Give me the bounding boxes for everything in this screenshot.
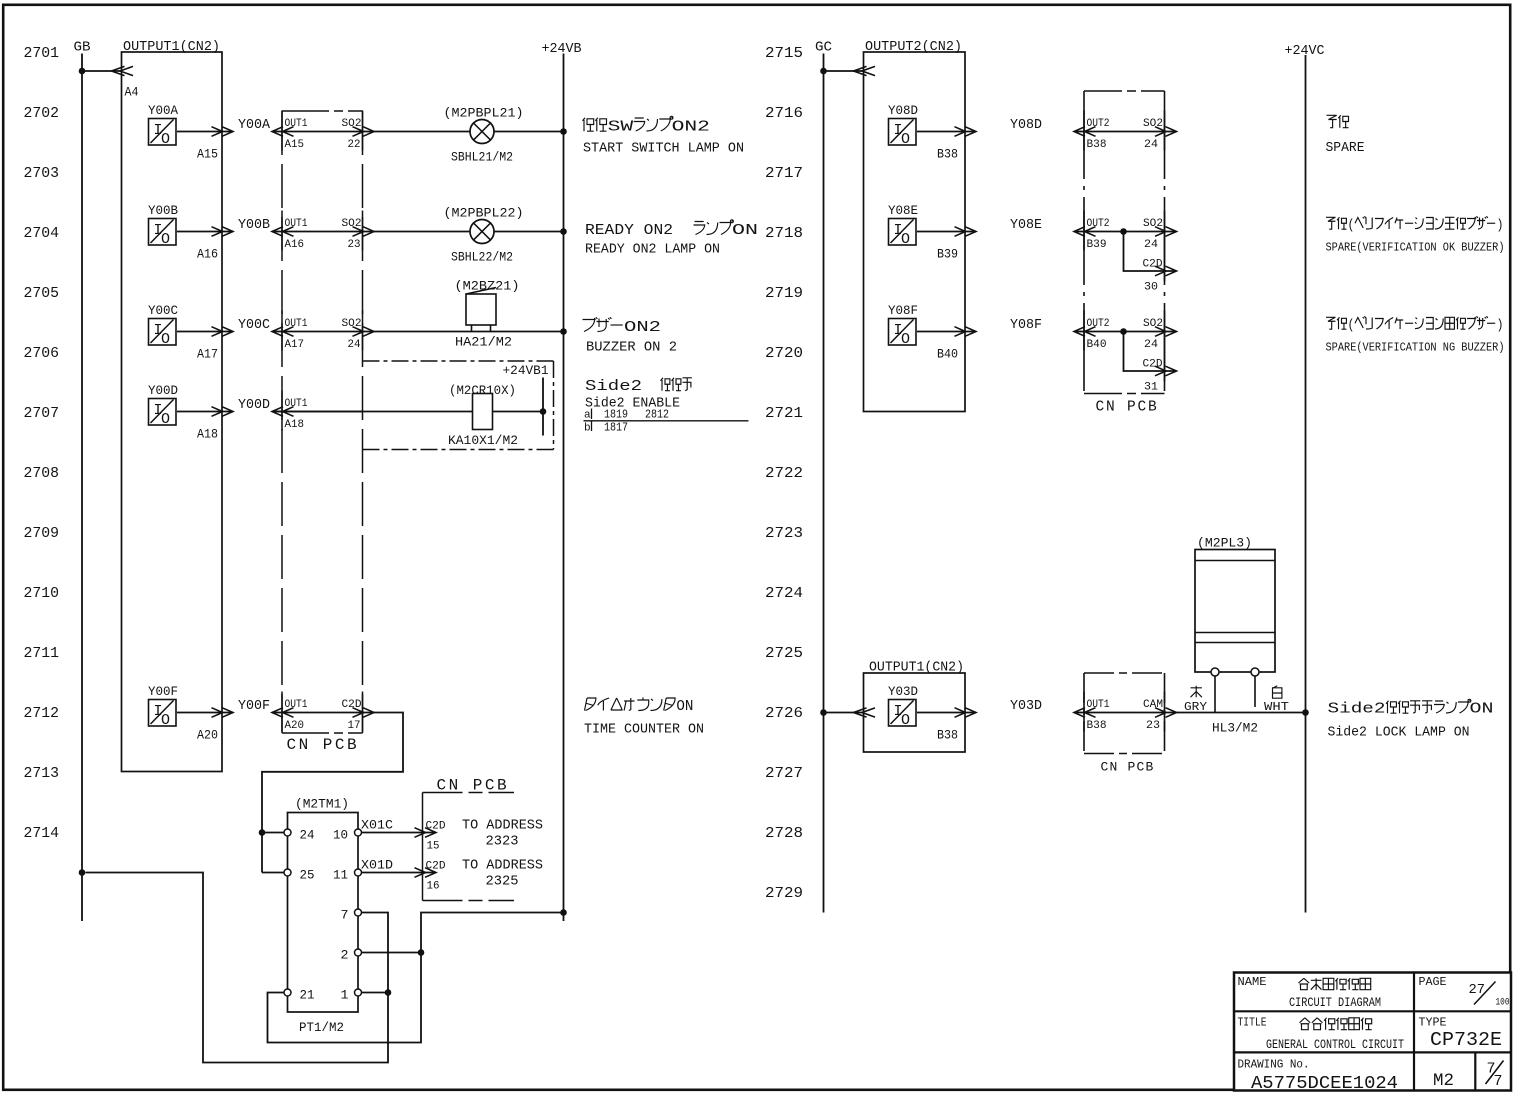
junction +24VB bottom end [560, 909, 567, 916]
connector OUTPUT2(CN2) outline [864, 52, 966, 412]
svg-text:SO2: SO2 [342, 318, 362, 330]
svg-text:HA21/M2: HA21/M2 [455, 336, 512, 350]
wire Y00D module to connector edge [177, 407, 233, 417]
svg-text:11: 11 [333, 868, 348, 883]
caption side2 lock lamp on [1328, 699, 1494, 740]
svg-text:SO2: SO2 [342, 218, 362, 230]
caption rung 2702 start switch lamp on [583, 116, 745, 156]
svg-text:OUT2: OUT2 [1087, 218, 1110, 230]
wire timer pin 7 to GB rail [86, 873, 389, 1063]
svg-text:O: O [161, 331, 170, 348]
svg-text:7: 7 [341, 908, 349, 923]
branch C2D 31 from Y08F [1120, 328, 1176, 393]
svg-text:A18: A18 [285, 419, 305, 431]
svg-text:Y00B: Y00B [148, 203, 178, 218]
svg-text:O: O [901, 712, 910, 729]
svg-text:O: O [161, 231, 170, 248]
svg-text:Y03D: Y03D [888, 684, 918, 699]
pin labels OUT1/A20 [285, 699, 308, 732]
svg-text:READY ON2 LAMP ON: READY ON2 LAMP ON [585, 243, 720, 258]
junction rung 2706 on +24VB [560, 328, 567, 335]
title block page cell [1419, 975, 1510, 1008]
CN PCB input arrow Y00A [272, 127, 294, 137]
junction on GB at rung 2701 [79, 68, 86, 75]
wire through CN PCB right row Y08F [1074, 327, 1177, 337]
svg-text:OUT1: OUT1 [1087, 699, 1110, 711]
CN PCB label (left box) [287, 736, 360, 754]
svg-text:7: 7 [1494, 1073, 1503, 1090]
svg-text:O: O [161, 411, 170, 428]
pin labels SO2/22 [342, 118, 362, 151]
svg-text:24: 24 [1144, 339, 1158, 351]
svg-text:2: 2 [341, 948, 349, 963]
power rail +24VB [542, 42, 582, 921]
svg-text:A17: A17 [197, 347, 218, 362]
svg-text:SO2: SO2 [1143, 218, 1163, 230]
junction relay to +24VB1 [540, 408, 547, 415]
wire GC to OUTPUT2 connector entry [824, 66, 876, 75]
svg-text:(M2BZ21): (M2BZ21) [455, 279, 520, 294]
CN PCB input arrow Y00F [272, 708, 294, 718]
svg-text:31: 31 [1144, 382, 1158, 394]
pin label B38 [937, 147, 958, 162]
wire through CN PCB row Y00D [272, 411, 363, 413]
timer pins right [355, 829, 362, 996]
svg-text:Y00D: Y00D [148, 383, 178, 398]
title block outline [1234, 973, 1511, 1091]
wire Y08E module to connector edge [917, 227, 976, 237]
CN PCB right input arrow Y08F [1074, 327, 1096, 337]
svg-text:21: 21 [300, 988, 315, 1003]
CN PCB input arrow Y00D [272, 407, 294, 417]
pin labels SO2/23 [342, 218, 362, 251]
svg-text:2709: 2709 [24, 525, 60, 542]
svg-text:A17: A17 [285, 339, 305, 351]
svg-text:2716: 2716 [765, 105, 803, 122]
svg-text:CP732E: CP732E [1430, 1029, 1502, 1051]
svg-text:X01C: X01C [361, 818, 393, 833]
caption rung 2704 ready on2 lamp on [585, 220, 758, 258]
net label Y00C [238, 318, 270, 333]
svg-text:Y00D: Y00D [238, 398, 270, 413]
svg-text:PAGE: PAGE [1419, 975, 1447, 989]
wire through CN PCB row Y00A [272, 127, 374, 137]
svg-text:SO2: SO2 [342, 118, 362, 130]
pin labels OUT1/A16 [285, 218, 308, 251]
svg-text:B38: B38 [937, 147, 958, 162]
svg-text:TITLE: TITLE [1238, 1016, 1267, 1030]
pin labels OUT2/B40 SO2/24 [1087, 318, 1164, 351]
svg-text:SW: SW [608, 119, 634, 136]
I/O output module Y08D [888, 103, 918, 148]
svg-text:TIME COUNTER ON: TIME COUNTER ON [584, 723, 704, 738]
svg-text:SPARE(VERIFICATION OK BUZZER): SPARE(VERIFICATION OK BUZZER) [1326, 242, 1505, 255]
svg-text:TO ADDRESS: TO ADDRESS [462, 859, 543, 874]
svg-text:B40: B40 [937, 347, 958, 362]
svg-text:1819: 1819 [604, 408, 628, 422]
svg-text:A20: A20 [285, 720, 305, 732]
svg-text:CN PCB: CN PCB [1101, 760, 1155, 775]
svg-text:Y08F: Y08F [888, 303, 918, 318]
net label Y00A [238, 118, 271, 133]
net label Y00F [238, 699, 270, 714]
svg-text:2325: 2325 [486, 875, 519, 890]
svg-text:24: 24 [300, 828, 315, 843]
svg-text:2719: 2719 [765, 285, 803, 302]
wire through CN PCB box4 [1074, 708, 1177, 718]
svg-text:PT1/M2: PT1/M2 [299, 1021, 344, 1035]
svg-text:2728: 2728 [765, 825, 803, 842]
I/O output module Y08E [888, 203, 918, 248]
title block drawing number cell [1238, 1058, 1399, 1095]
svg-text:24: 24 [1144, 139, 1158, 151]
I/O output module Y00D [148, 383, 178, 428]
svg-text:Y08D: Y08D [1010, 118, 1042, 133]
wire through CN PCB row Y00F [272, 708, 374, 718]
svg-text:O: O [901, 331, 910, 348]
branch C2D 30 from Y08E [1120, 228, 1176, 293]
title block name cell [1238, 975, 1382, 1010]
svg-text:HL3/M2: HL3/M2 [1212, 722, 1258, 736]
wire through CN PCB row Y00B [272, 227, 374, 237]
svg-text:ON: ON [1470, 701, 1494, 718]
wire rung 2706 to +24VB [374, 331, 564, 333]
power stub +24VB1 [503, 363, 549, 436]
svg-text:2712: 2712 [24, 705, 60, 722]
svg-text:+24VB: +24VB [542, 42, 582, 57]
bus GB vertical rail [81, 54, 83, 922]
svg-text:+24VB1: +24VB1 [503, 363, 549, 378]
svg-text:A5775DCEE1024: A5775DCEE1024 [1251, 1074, 1398, 1094]
CN PCB right input arrow Y08D [1074, 127, 1096, 137]
CN PCB box4 input arrow [1074, 708, 1096, 718]
svg-text:SPARE: SPARE [1326, 141, 1365, 156]
svg-text:2714: 2714 [24, 825, 60, 842]
relay coil box dash-dot outline [363, 361, 554, 450]
caption side2 enable [585, 378, 692, 412]
svg-text:2729: 2729 [765, 885, 803, 902]
svg-text:2707: 2707 [24, 405, 60, 422]
svg-text:C2D: C2D [1143, 259, 1163, 271]
left rung numbers 2701-2714 [24, 45, 60, 842]
svg-text:A18: A18 [197, 427, 218, 442]
svg-text:23: 23 [1146, 720, 1160, 732]
wire Y00B module to connector edge [177, 227, 233, 237]
junction on GC at rung 2726 [820, 709, 827, 716]
svg-text:TYPE: TYPE [1419, 1016, 1447, 1030]
svg-text:15: 15 [427, 841, 440, 853]
svg-text:BUZZER ON 2: BUZZER ON 2 [586, 341, 677, 356]
svg-text:Y08E: Y08E [888, 203, 918, 218]
wire through CN PCB row Y00C [272, 327, 374, 337]
svg-text:Y00F: Y00F [148, 684, 178, 699]
svg-text:+24VC: +24VC [1285, 44, 1325, 59]
svg-text:NAME: NAME [1238, 975, 1267, 989]
svg-text:B38: B38 [1087, 139, 1107, 151]
svg-text:B38: B38 [1087, 720, 1107, 732]
svg-text:Y00B: Y00B [238, 218, 270, 233]
CN PCB interface box 2 outline [423, 777, 515, 901]
svg-text:2323: 2323 [486, 835, 519, 850]
pin label A18 [197, 427, 218, 442]
net label Y08F [1010, 318, 1042, 333]
svg-text:SBHL22/M2: SBHL22/M2 [451, 251, 513, 265]
node GB label [74, 41, 91, 56]
svg-text:SBHL21/M2: SBHL21/M2 [451, 151, 513, 165]
svg-text:OUT2: OUT2 [1087, 318, 1110, 330]
pin label A20 [197, 728, 218, 743]
I/O output module Y03D [888, 684, 918, 729]
svg-text:Y08E: Y08E [1010, 218, 1042, 233]
svg-text:GB: GB [74, 41, 91, 56]
svg-text:O: O [901, 231, 910, 248]
svg-text:2727: 2727 [765, 765, 803, 782]
svg-text:O: O [901, 131, 910, 148]
svg-text:2726: 2726 [765, 705, 803, 722]
junction on GB at pin7 return [79, 869, 86, 876]
svg-text:KA10X1/M2: KA10X1/M2 [448, 434, 518, 448]
svg-text:(M2PBPL21): (M2PBPL21) [444, 106, 524, 121]
svg-text:ON: ON [676, 698, 693, 715]
svg-text:2701: 2701 [24, 45, 60, 62]
svg-text:2718: 2718 [765, 225, 803, 242]
wire timer pin 1 join [362, 989, 392, 996]
svg-text:B38: B38 [937, 728, 958, 743]
svg-text:B40: B40 [1087, 339, 1107, 351]
svg-text:READY ON2: READY ON2 [585, 222, 673, 239]
timer PT1/M2 (M2TM1) body [288, 797, 359, 1036]
svg-text:2812: 2812 [645, 408, 669, 422]
svg-text:2725: 2725 [765, 645, 803, 662]
bus GC vertical rail [823, 54, 825, 913]
pin labels OUT1/A18 [285, 398, 308, 431]
svg-text:2720: 2720 [765, 345, 803, 362]
junction rung 2704 on +24VB [560, 228, 567, 235]
pin labels SO2/24 [342, 318, 362, 351]
svg-text:16: 16 [427, 881, 440, 893]
svg-text:CN PCB: CN PCB [287, 736, 360, 754]
svg-text:SPARE(VERIFICATION NG BUZZER): SPARE(VERIFICATION NG BUZZER) [1326, 342, 1505, 355]
pilot lamp assembly M2PL3 [1195, 536, 1275, 673]
svg-text:A4: A4 [125, 85, 139, 100]
cross reference a/b 1819 2812 1817 [584, 408, 749, 435]
svg-text:(M2PL3): (M2PL3) [1197, 536, 1252, 551]
pin labels OUT2/B39 SO2/24 [1087, 218, 1164, 251]
svg-text:CIRCUIT DIAGRAM: CIRCUIT DIAGRAM [1289, 995, 1381, 1010]
svg-text:30: 30 [1144, 282, 1158, 294]
power rail +24VC [1285, 44, 1325, 913]
CN PCB label (right box) [1096, 400, 1159, 416]
svg-text:START SWITCH LAMP ON: START SWITCH LAMP ON [583, 142, 744, 157]
connector OUTPUT2(CN2) label [865, 40, 962, 55]
svg-text:SO2: SO2 [1143, 318, 1163, 330]
wire through CN PCB right row Y08E [1074, 227, 1177, 237]
right rung numbers 2715-2729 [765, 45, 803, 902]
svg-text:Y08F: Y08F [1010, 318, 1042, 333]
wire GB to OUTPUT1 connector entry [82, 66, 133, 75]
svg-text:1817: 1817 [604, 421, 628, 435]
svg-text:Y00C: Y00C [148, 303, 178, 318]
svg-text:Side2: Side2 [1328, 701, 1386, 718]
caption rung 2706 buzzer on 2 [583, 317, 678, 355]
svg-text:A20: A20 [197, 728, 218, 743]
pin label B39 [937, 247, 958, 262]
lamp SBHL21/M2 [444, 106, 524, 165]
svg-text:X01D: X01D [361, 858, 393, 873]
caption spare rung 2716 [1326, 115, 1365, 156]
svg-text:Y00F: Y00F [238, 699, 270, 714]
svg-text:C2D: C2D [1143, 359, 1163, 371]
wire Y08D module to connector edge [917, 127, 976, 137]
svg-text:23: 23 [348, 239, 361, 251]
svg-text:2704: 2704 [24, 225, 60, 242]
connector OUTPUT1(CN2) label [123, 40, 220, 55]
timer pins left [284, 829, 291, 996]
svg-text:2722: 2722 [765, 465, 803, 482]
svg-text:2723: 2723 [765, 525, 803, 542]
lamp M2PL3 terminals [1211, 668, 1259, 713]
svg-text:2715: 2715 [765, 45, 803, 62]
svg-text:2721: 2721 [765, 405, 803, 422]
svg-text:CN PCB: CN PCB [1096, 400, 1159, 416]
svg-text:Y00A: Y00A [148, 103, 178, 118]
svg-text:OUT1: OUT1 [285, 318, 308, 330]
svg-text:TO ADDRESS: TO ADDRESS [462, 819, 543, 834]
caption rung 2712 time counter on [584, 698, 704, 738]
pin label A15 [197, 147, 218, 162]
svg-text:ON: ON [732, 222, 758, 239]
wire branch to pin 25 [262, 833, 284, 873]
wire Y00F C2D to timer PT1 pin24 [262, 713, 403, 833]
wire color labels GRY WHT [1184, 686, 1289, 714]
wire rung 2702 to +24VB [374, 131, 564, 133]
svg-text:2713: 2713 [24, 765, 60, 782]
svg-text:2702: 2702 [24, 105, 60, 122]
title block title cell [1238, 1016, 1405, 1053]
svg-text:A15: A15 [197, 147, 218, 162]
svg-text:2711: 2711 [24, 645, 60, 662]
svg-text:OUT1: OUT1 [285, 118, 308, 130]
svg-text:OUT1: OUT1 [285, 699, 308, 711]
svg-text:SO2: SO2 [1143, 118, 1163, 130]
wire rung 2704 to +24VB [374, 231, 564, 233]
svg-text:b: b [584, 423, 591, 435]
svg-text:OUT1: OUT1 [285, 218, 308, 230]
svg-text:Y08D: Y08D [888, 103, 918, 118]
wire timer pin 21 to +24VB end [268, 913, 564, 1043]
svg-text:Side2: Side2 [585, 378, 642, 395]
wire timer pin 2 join [362, 949, 425, 956]
svg-text:O: O [161, 712, 170, 729]
net label Y03D [1010, 699, 1042, 714]
svg-text:2703: 2703 [24, 165, 60, 182]
svg-text:24: 24 [1144, 239, 1158, 251]
svg-text:17: 17 [348, 720, 361, 732]
svg-text:2710: 2710 [24, 585, 60, 602]
junction at timer pin 24 branch [259, 829, 266, 836]
svg-text:M2: M2 [1433, 1071, 1454, 1091]
I/O output module Y00F [148, 684, 178, 729]
pin label A4 [125, 85, 139, 100]
svg-text:ON2: ON2 [624, 319, 661, 336]
pin label B38 [937, 728, 958, 743]
svg-text:CAM: CAM [1143, 699, 1163, 711]
svg-text:Side2 LOCK LAMP ON: Side2 LOCK LAMP ON [1328, 726, 1470, 741]
svg-text:O: O [161, 131, 170, 148]
buzzer HA21/M2 [455, 279, 520, 350]
pin label A17 [197, 347, 218, 362]
svg-text:22: 22 [348, 139, 361, 151]
connector OUTPUT1(CN2) outline [122, 52, 223, 772]
svg-text:OUT1: OUT1 [285, 398, 308, 410]
CN PCB input arrow Y00B [272, 227, 294, 237]
connector OUTPUT1(CN2) lower label [869, 661, 964, 676]
wire rung 2707 to +24VB1 [272, 411, 543, 413]
caption spare verification ng buzzer [1326, 316, 1505, 354]
svg-text:GENERAL CONTROL CIRCUIT: GENERAL CONTROL CIRCUIT [1266, 1037, 1404, 1052]
svg-text:B39: B39 [1087, 239, 1107, 251]
junction rung 2702 on +24VB [560, 128, 567, 135]
net label Y00B [238, 218, 270, 233]
pin labels OUT2/B38 SO2/24 [1087, 118, 1164, 151]
CN PCB interface box (right) dashed outline [1084, 91, 1165, 394]
svg-text:GRY: GRY [1184, 701, 1207, 714]
CN PCB interface box (left) dashed outline [282, 111, 363, 734]
svg-text:): ) [1497, 218, 1504, 234]
svg-text:(: ( [1348, 318, 1355, 334]
net label Y00D [238, 398, 270, 413]
connector OUTPUT1(CN2) lower outline [864, 673, 966, 752]
wire Y00A module to connector edge [177, 127, 233, 137]
CN PCB right input arrow Y08E [1074, 227, 1096, 237]
junction on GC at rung 2715 [820, 68, 827, 75]
I/O output module Y00C [148, 303, 178, 348]
wire Y08F module to connector edge [917, 327, 976, 337]
signal X01D to address 2325 [361, 858, 543, 893]
svg-text:A16: A16 [197, 247, 218, 262]
pin labels OUT1/A17 [285, 318, 308, 351]
svg-text:100: 100 [1496, 996, 1510, 1008]
wire Y00C module to connector edge [177, 327, 233, 337]
svg-text:(M2PBPL22): (M2PBPL22) [444, 206, 524, 221]
relay coil KA10X1/M2 [448, 383, 518, 448]
lamp reference HL3/M2 [1212, 722, 1258, 736]
svg-text:2705: 2705 [24, 285, 60, 302]
svg-text:a: a [584, 410, 591, 422]
junction rung 2726 on +24VC [1302, 709, 1309, 716]
svg-text:Y03D: Y03D [1010, 699, 1042, 714]
svg-text:C2D: C2D [342, 699, 362, 711]
wire through CN PCB right row Y08D [1074, 127, 1177, 137]
svg-text:ON2: ON2 [672, 119, 710, 136]
I/O output module Y08F [888, 303, 918, 348]
svg-text:10: 10 [333, 828, 348, 843]
svg-text:(M2TM1): (M2TM1) [295, 797, 349, 812]
svg-text:2706: 2706 [24, 345, 60, 362]
svg-text:Y00C: Y00C [238, 318, 270, 333]
svg-text:C2D: C2D [426, 821, 446, 833]
svg-text:WHT: WHT [1264, 701, 1289, 714]
pin label B40 [937, 347, 958, 362]
svg-text:2717: 2717 [765, 165, 803, 182]
pin labels C2D/17 [342, 699, 362, 732]
svg-text:24: 24 [348, 339, 361, 351]
I/O output module Y00B [148, 203, 178, 248]
pin labels OUT1/A15 [285, 118, 308, 151]
svg-text:): ) [1497, 318, 1504, 334]
net label Y08D [1010, 118, 1042, 133]
svg-text:GC: GC [815, 41, 832, 56]
